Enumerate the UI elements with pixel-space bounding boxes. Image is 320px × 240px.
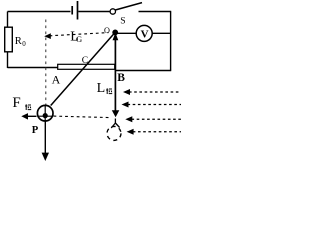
- force arrow G (weight, pointing down below P): [42, 121, 49, 161]
- dimension arrow L-G: dashed line from P-line to O: [50, 33, 109, 36]
- svg-text:F: F: [12, 95, 20, 111]
- crack mark (inverted Y) above dashed ball: [111, 119, 119, 129]
- switch S: pivot circle: [110, 9, 115, 14]
- label O: [104, 26, 110, 35]
- svg-text:L: L: [97, 81, 106, 96]
- wire bottom-right (right rail to rod end B): [116, 70, 172, 72]
- svg-text:V: V: [141, 29, 149, 41]
- svg-text:B: B: [117, 72, 125, 84]
- svg-text:P: P: [32, 125, 39, 136]
- battery (cell): long positive plate: [77, 1, 79, 20]
- label S: [120, 16, 125, 27]
- node O (pivot dot): [112, 30, 118, 36]
- svg-text:G: G: [76, 34, 83, 44]
- dashed ray arrow 1 (top): [123, 89, 181, 95]
- wire battery to switch: [78, 11, 110, 13]
- dashed ball (circle): [107, 126, 121, 140]
- battery (cell): short negative plate: [71, 6, 73, 15]
- axle P (circle): [37, 105, 53, 121]
- dimension arrow L-la: lower arrowhead (points down at dashed line): [112, 110, 120, 117]
- label A: [52, 73, 61, 87]
- dimension arrow L-G: left arrowhead: [44, 33, 51, 39]
- wire O to voltmeter: [116, 32, 136, 34]
- switch S: open blade: [115, 3, 142, 10]
- dashed guide: vertical line through P: [45, 20, 47, 106]
- svg-text:O: O: [104, 26, 110, 35]
- wire bottom-left (left rail to rod end A): [8, 67, 59, 69]
- axle P vertical crosshair: [44, 105, 46, 121]
- dashed ray arrow 3: [125, 116, 181, 122]
- node P (center dot): [43, 113, 48, 118]
- label L (of L-G): [70, 29, 79, 44]
- label C: [82, 55, 88, 66]
- dimension arrow L-la: upper arrowhead (points up at O): [113, 33, 119, 41]
- wire top-left (battery negative to left rail): [8, 11, 71, 13]
- label R0: [15, 36, 26, 48]
- wire left rail (down through R0): [7, 12, 9, 69]
- wire switch to top-right corner: [139, 11, 172, 13]
- subscript la (Chinese) of F: [25, 104, 31, 110]
- wire right rail (down right side): [170, 12, 172, 71]
- wire voltmeter to right rail: [152, 32, 170, 34]
- lever rod AB (rectangle): [58, 64, 115, 69]
- svg-text:S: S: [120, 16, 125, 27]
- resistor R0: [5, 27, 13, 52]
- dashed ray arrow 2: [122, 102, 182, 108]
- dashed guide: horizontal from P to below O: [54, 116, 112, 118]
- subscript G: [76, 34, 83, 44]
- voltmeter V: [136, 25, 152, 41]
- label B: [117, 72, 125, 84]
- svg-text:0: 0: [22, 40, 26, 48]
- force arrow F-la (pull, pointing left at P): [21, 113, 36, 120]
- subscript la (Chinese) of L: [106, 88, 112, 94]
- svg-text:A: A: [52, 73, 61, 87]
- dashed ray arrow 4: [127, 129, 181, 135]
- handle rod P to O (diagonal): [51, 33, 115, 106]
- label F: [12, 95, 20, 111]
- dimension arrow L-la: vertical line from O down to P level: [114, 33, 116, 111]
- label L (of L-la): [97, 81, 106, 96]
- axle P horizontal crosshair: [37, 115, 53, 117]
- label P: [32, 125, 39, 136]
